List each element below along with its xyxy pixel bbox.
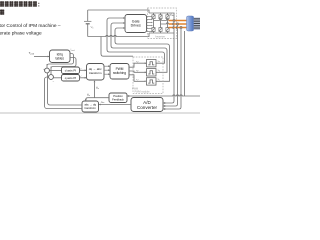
wire Iq cmd wrap [51,58,76,75]
svg-text:v*: v* [80,68,82,70]
transistor Q3 [166,15,169,19]
svg-text:transform: transform [85,106,97,110]
svg-text:abc → dq: abc → dq [84,103,96,107]
wire vb* [129,71,145,72]
theta m wire [86,82,109,99]
gate signal wire Sb [111,23,167,72]
transistor Q4 [152,28,155,32]
inverter bottom bus [149,32,175,34]
d axis PI block [62,67,80,74]
inverter dashed box [148,8,177,39]
wire vc* [129,75,145,82]
wire Id cmd wrap [47,54,74,68]
battery Vb plates [84,21,91,24]
gate drive output arrows [147,16,153,32]
DC bottom rail with hops [88,33,149,37]
gate signal wire Sa [107,18,165,63]
Id/Iq tables block [50,50,71,63]
svg-text:Inverter: Inverter [155,34,165,38]
svg-text:erate phase voltage: erate phase voltage [0,31,42,37]
inverter top bus [149,12,175,14]
transistor Q6 [166,28,169,32]
Vdc sense line [173,13,175,19]
PWM comparator 3 [147,78,157,85]
junction 2 to q axis PI [53,77,61,79]
svg-text:–: – [53,81,55,84]
svg-text:vc*: vc* [136,79,139,81]
svg-text:switching: switching [113,71,126,75]
PWM comparator 2 [147,69,157,76]
svg-text:v*: v* [80,76,82,78]
transistor Q5 [159,28,162,32]
wire Vd cmd [80,69,87,71]
transistor Q2 [159,15,162,19]
inverter leg 1 [153,13,155,33]
motor body stripes [194,18,200,30]
phase wire a (orange) [169,20,188,22]
svg-text:Feedback: Feedback [112,97,124,101]
svg-text:transform: transform [89,71,102,75]
gate drive input arrows [123,17,125,29]
svg-text:PWM module: PWM module [135,90,151,93]
theta feedback line [129,95,200,96]
current sensor a [173,19,175,21]
motor M (end cap) [187,16,194,31]
battery Vb wires [87,10,89,37]
inverter leg 2 [160,13,162,33]
bottom divider line [0,112,200,114]
svg-text:Icmd: Icmd [71,49,75,52]
phase a tap [154,19,169,20]
abc to dq transform block [82,101,99,112]
svg-text:Iabc: Iabc [101,101,105,104]
svg-text:Vb: Vb [91,25,95,30]
wire va* [129,63,145,67]
svg-text:tables: tables [55,56,64,60]
svg-text:θm: θm [87,92,90,96]
svg-text:vb*: vb* [136,70,139,72]
A/D input wires [165,101,181,109]
transistor Q1 [152,15,155,19]
second title row glyph [0,9,4,14]
svg-text:d axis PI: d axis PI [65,69,77,73]
DC top rail [88,10,149,13]
wire Vq cmd [80,77,87,79]
q axis PI block [62,75,80,82]
summing junction 2 [49,75,55,84]
PWM comparator 1 [147,60,157,67]
PWM switching block [110,64,129,80]
position feedback block [109,93,127,103]
Iq feedback wire [45,77,83,109]
current sensor c [180,26,182,28]
svg-text:θm: θm [96,86,99,90]
junction 1 to d axis PI [49,70,61,72]
phase b tap [161,23,169,24]
dq-abc outputs to PWM switching [104,65,110,75]
svg-text:Converter: Converter [137,105,158,110]
sensor wire ia / Vdc [173,22,174,101]
phase c tap [168,27,169,29]
Id feedback wire [48,73,83,105]
gate signal wire Sc [115,28,170,81]
phase wire b (orange) [169,23,188,25]
A/D converter block [131,98,163,112]
svg-text:q axis PI: q axis PI [65,76,77,80]
T cmd arrow [34,56,50,58]
svg-text:A/D: A/D [143,100,151,105]
sensor wire ib [176,25,177,104]
gate drives block [125,15,147,33]
dq to abc transform block [87,64,105,81]
inverter leg 3 [167,13,169,33]
resolver wire [184,31,186,96]
phase wire c (orange) [169,27,188,29]
A/D output Iabc wire [99,104,131,106]
svg-text:Position: Position [113,94,123,98]
svg-text:Tcmd: Tcmd [29,51,35,56]
PWM module dashed box [133,57,163,94]
sensor wire ic [180,29,182,107]
svg-text:Drives: Drives [131,24,141,28]
current sensor b [176,23,178,25]
svg-text:va*: va* [136,61,139,63]
aux wire to PWM module [101,37,133,57]
svg-text:tor Control of IPM machine –: tor Control of IPM machine – [0,23,61,29]
summing junction 1 [43,68,49,77]
slide title (Chinese, drawn as glyph blocks) [0,1,39,15]
